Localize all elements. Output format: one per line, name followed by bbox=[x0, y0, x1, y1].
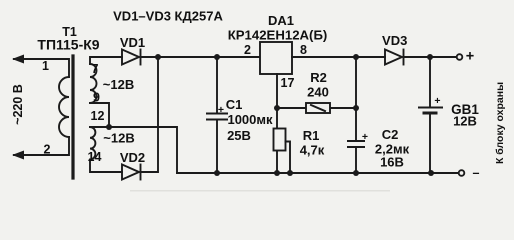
transformer T1 primary winding bbox=[59, 77, 69, 137]
terminal minus bbox=[459, 170, 465, 176]
junction C1/plus rail bbox=[214, 54, 220, 60]
svg-text:12В: 12В bbox=[453, 114, 477, 129]
capacitor C2 plates bbox=[348, 140, 364, 142]
svg-text:+: + bbox=[466, 49, 474, 65]
svg-text:2: 2 bbox=[244, 43, 251, 57]
transformer T1 core bbox=[71, 56, 74, 178]
junction R1 wiper/ground rail bbox=[287, 170, 293, 176]
svg-text:25В: 25В bbox=[227, 128, 251, 143]
junction C2/ground rail bbox=[353, 170, 359, 176]
svg-text:16В: 16В bbox=[380, 155, 404, 170]
wire: pin 12 lead to center tap bbox=[90, 126, 109, 128]
wire: VD3 cathode to plus terminal bbox=[404, 56, 457, 58]
wire: plus rail VD1 to DA1 input bbox=[141, 56, 261, 58]
wire: pin 9 lead to center tap bbox=[90, 103, 109, 127]
wire: pin 1 lead (mains input top) bbox=[14, 59, 69, 77]
junction C1/ground rail bbox=[214, 170, 220, 176]
svg-text:~220 В: ~220 В bbox=[11, 84, 25, 125]
junction GB1/plus rail bbox=[427, 54, 433, 60]
svg-text:VD2: VD2 bbox=[120, 150, 145, 165]
svg-text:12: 12 bbox=[91, 109, 105, 123]
diode VD2 bbox=[122, 165, 139, 180]
svg-text:~12В: ~12В bbox=[103, 77, 134, 92]
wire: DA1 output to VD3 bbox=[292, 56, 385, 58]
svg-text:8: 8 bbox=[300, 43, 307, 57]
wire: VD2 cathode up to plus rail bbox=[141, 57, 159, 172]
svg-text:–: – bbox=[473, 166, 480, 180]
junction R2/C2 line bbox=[353, 105, 359, 111]
transformer T1 secondary winding upper (7-9) bbox=[90, 64, 97, 103]
svg-text:+: + bbox=[362, 131, 368, 143]
wire: center tap to ground rail bbox=[109, 127, 177, 173]
wire: pin 2 lead (mains input bottom) bbox=[14, 137, 69, 155]
svg-text:К блоку охраны: К блоку охраны bbox=[494, 82, 506, 164]
junction C2 line/plus rail bbox=[353, 54, 359, 60]
battery GB1 plates bbox=[419, 107, 442, 109]
capacitor C2 leads bbox=[355, 57, 357, 141]
R1 wiper tap bbox=[286, 142, 291, 174]
diode VD1 bbox=[122, 50, 139, 65]
junction pin17/R2/R1 bbox=[274, 105, 280, 111]
svg-text:VD1: VD1 bbox=[120, 35, 145, 50]
arrow mains bottom bbox=[12, 151, 24, 160]
svg-text:C1: C1 bbox=[226, 97, 243, 112]
junction center tap bbox=[106, 124, 112, 130]
wire: ground rail bbox=[177, 172, 458, 174]
svg-text:КР142ЕН12А(Б): КР142ЕН12А(Б) bbox=[228, 28, 328, 43]
svg-text:R2: R2 bbox=[310, 70, 327, 85]
regulator DA1 body bbox=[260, 42, 292, 74]
transformer T1 secondary winding lower (12-14) bbox=[90, 127, 95, 159]
resistor R2 body bbox=[306, 103, 330, 113]
svg-text:240: 240 bbox=[307, 85, 329, 100]
scan smudge bbox=[130, 190, 390, 192]
capacitor C1 leads bbox=[216, 57, 218, 113]
junction R1/ground rail bbox=[274, 170, 280, 176]
wire: DA1 pin 17 stub bbox=[276, 74, 278, 108]
svg-text:~12В: ~12В bbox=[103, 131, 134, 146]
resistor R2 wires bbox=[277, 107, 306, 109]
svg-text:17: 17 bbox=[281, 76, 295, 90]
arrow mains top bbox=[12, 55, 24, 64]
svg-text:DA1: DA1 bbox=[268, 13, 294, 28]
svg-text:7: 7 bbox=[92, 62, 99, 76]
resistor R1 wires bbox=[276, 108, 278, 128]
junction VD2/plus rail bbox=[155, 54, 161, 60]
terminal plus bbox=[457, 54, 463, 60]
svg-text:C2: C2 bbox=[382, 127, 399, 142]
svg-text:9: 9 bbox=[93, 91, 100, 105]
battery GB1 leads bbox=[429, 57, 431, 107]
svg-text:VD3: VD3 bbox=[382, 33, 407, 48]
svg-text:1: 1 bbox=[42, 59, 49, 73]
svg-text:1000мк: 1000мк bbox=[227, 112, 273, 127]
diode VD3 bbox=[385, 50, 402, 65]
svg-text:VD1–VD3 КД257А: VD1–VD3 КД257А bbox=[113, 9, 223, 24]
svg-text:4,7к: 4,7к bbox=[300, 143, 325, 158]
svg-text:2: 2 bbox=[44, 143, 51, 157]
resistor R1 body bbox=[274, 129, 286, 151]
svg-text:+: + bbox=[218, 104, 224, 116]
svg-text:ТП115-К9: ТП115-К9 bbox=[37, 37, 99, 53]
svg-text:14: 14 bbox=[88, 150, 102, 164]
wire: pin 14 lead down to VD2 bbox=[90, 159, 122, 172]
capacitor C1 plates bbox=[207, 113, 227, 115]
junction GB1/ground rail bbox=[428, 170, 434, 176]
wire: pin 7 lead bbox=[90, 57, 122, 64]
svg-text:R1: R1 bbox=[303, 128, 320, 143]
svg-text:+: + bbox=[434, 95, 440, 107]
